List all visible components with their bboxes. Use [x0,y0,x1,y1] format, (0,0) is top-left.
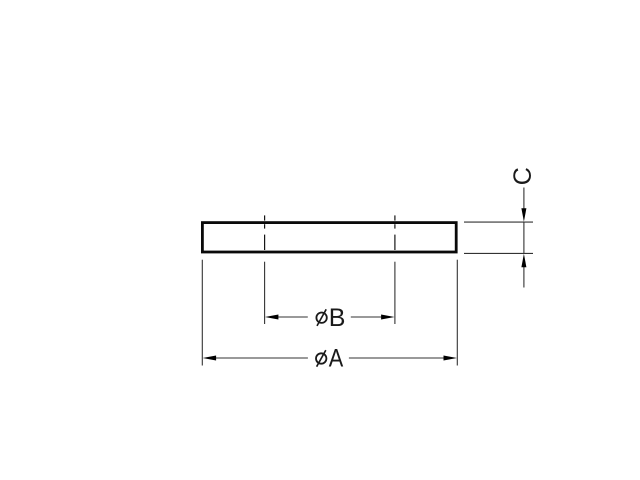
label øB [316,304,345,332]
arrow C bottom [521,254,526,268]
dimension C [523,188,525,288]
arrow øB left [265,315,279,320]
dimension øA [216,357,444,359]
arrow øA right [444,356,458,361]
dimension øB [278,316,381,318]
arrow øA left [203,356,217,361]
extension line øA right [456,260,458,366]
svg-text:C: C [509,167,537,185]
extension line C bottom [464,252,533,254]
label øA [316,344,344,372]
arrow øB right [381,315,395,320]
washer body rectangle (section view) [202,223,456,252]
extension line øB left [264,262,266,324]
extension line øB right [394,262,396,324]
svg-text:B: B [329,304,346,332]
centerline right (hole øB) [394,215,396,250]
centerline left (hole øB) [264,215,266,250]
extension line C top [464,221,533,223]
arrow C top [521,208,526,222]
extension line øA left [201,260,203,366]
svg-text:A: A [329,344,344,372]
